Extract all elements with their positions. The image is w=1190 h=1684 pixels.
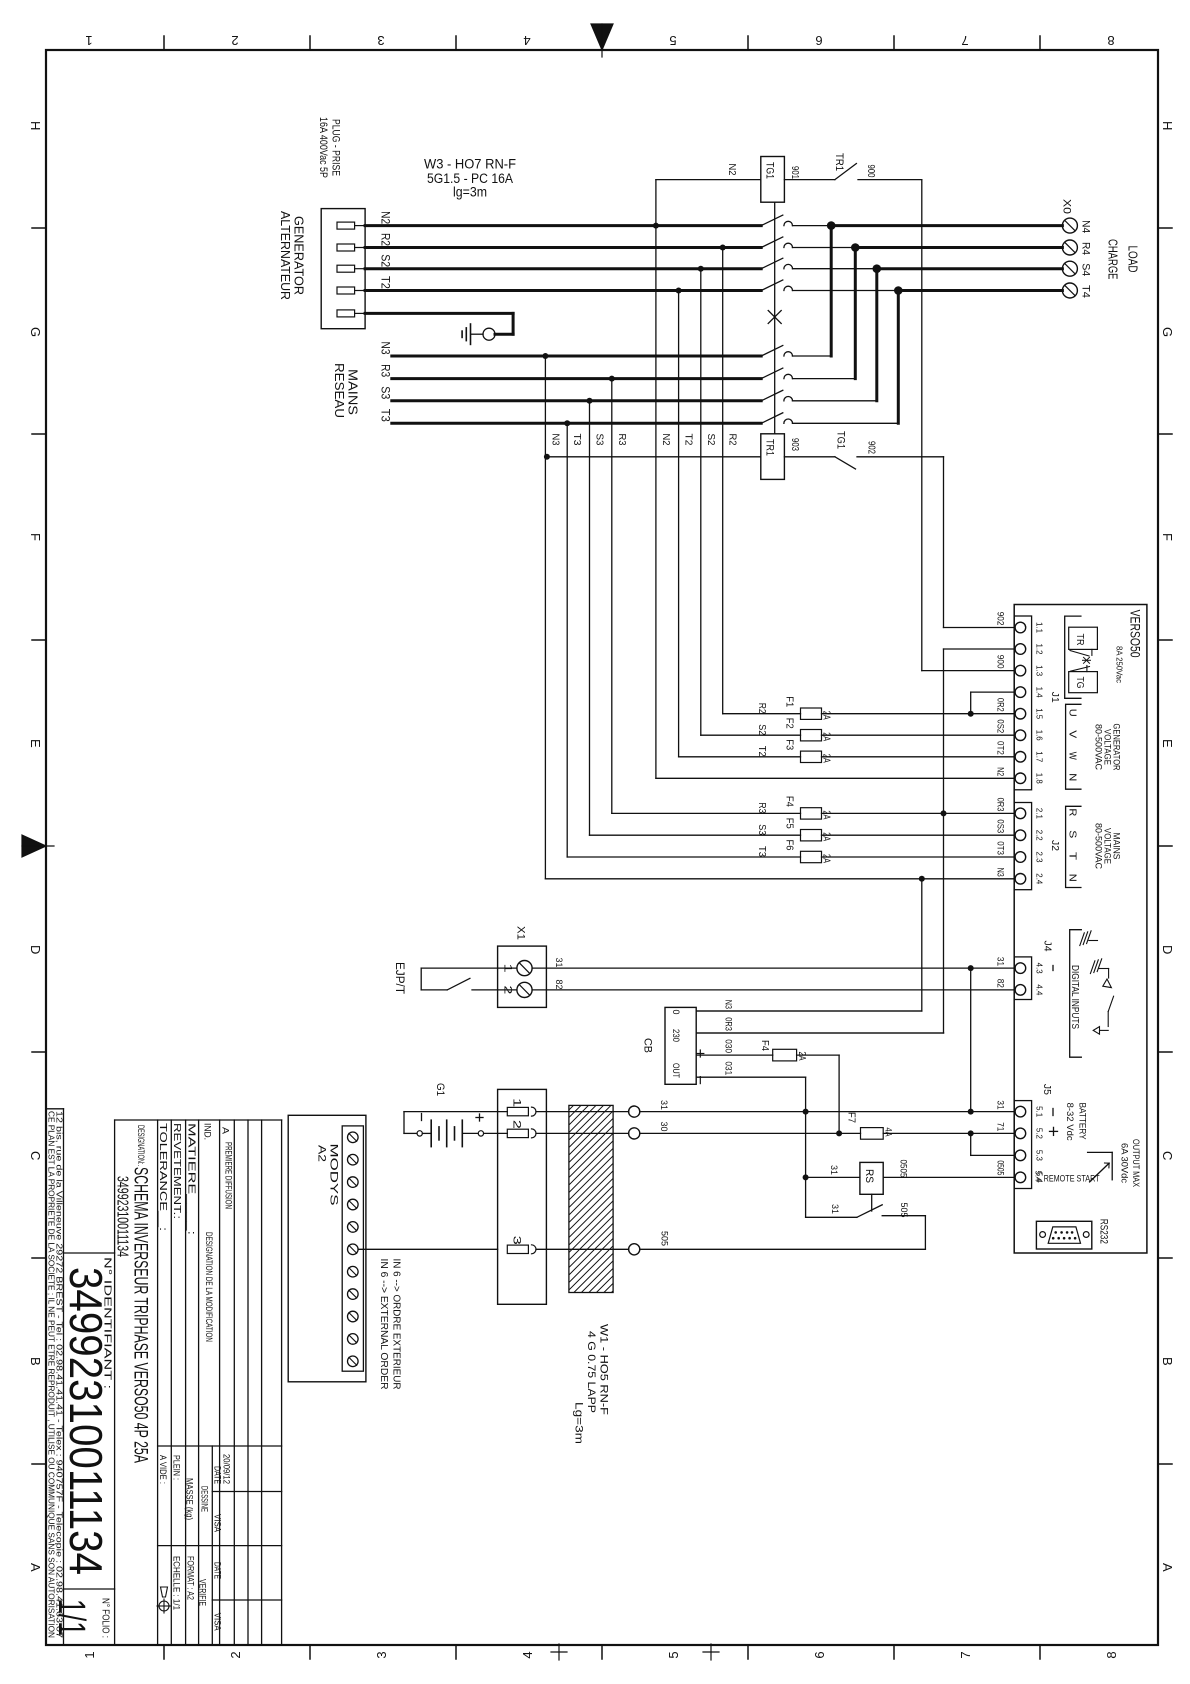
svg-text:TOLERANCE__:: TOLERANCE__: (157, 1123, 168, 1231)
svg-text:TG1: TG1 (835, 431, 847, 449)
svg-text:1: 1 (511, 1098, 523, 1107)
svg-text:REMOTE START: REMOTE START (1044, 1173, 1100, 1183)
svg-text:F: F (1160, 533, 1175, 541)
svg-text:N° FOLIO :: N° FOLIO : (100, 1598, 112, 1638)
svg-text:D: D (28, 945, 43, 954)
svg-text:A: A (220, 1127, 231, 1135)
svg-text:230: 230 (670, 1029, 681, 1042)
svg-text:2A: 2A (821, 810, 832, 819)
svg-text:1.2: 1.2 (1035, 644, 1045, 655)
svg-text:N2: N2 (379, 211, 393, 224)
svg-text:GENERATOR: GENERATOR (292, 216, 306, 295)
svg-text:VERIFIE: VERIFIE (197, 1579, 208, 1606)
svg-text:901: 901 (789, 166, 800, 179)
svg-text:34992310011134: 34992310011134 (114, 1176, 131, 1257)
svg-text:EJP/T: EJP/T (393, 962, 405, 994)
svg-text:MATIERE____:: MATIERE____: (185, 1123, 196, 1235)
svg-text:S2: S2 (379, 254, 393, 267)
svg-text:030: 030 (723, 1039, 734, 1053)
svg-text:80-500VAC: 80-500VAC (1094, 724, 1104, 770)
svg-text:W3 - HO7 RN-F: W3 - HO7 RN-F (424, 157, 516, 172)
svg-text:N3: N3 (379, 342, 393, 355)
svg-text:F3: F3 (784, 739, 795, 750)
svg-text:505: 505 (898, 1203, 909, 1218)
svg-text:1.5: 1.5 (1035, 708, 1045, 719)
svg-text:8-32 Vdc: 8-32 Vdc (1064, 1103, 1075, 1141)
svg-text:N3: N3 (549, 434, 560, 446)
svg-text:2A: 2A (821, 732, 832, 741)
svg-text:A: A (28, 1563, 43, 1572)
svg-text:R2: R2 (379, 233, 393, 246)
svg-text:2A: 2A (796, 1052, 807, 1061)
svg-text:4 G 0.75 LAPP: 4 G 0.75 LAPP (585, 1331, 597, 1413)
svg-text:82: 82 (995, 979, 1006, 988)
svg-text:6: 6 (812, 1651, 827, 1658)
svg-text:Lg=3m: Lg=3m (573, 1402, 585, 1444)
svg-text:J2: J2 (1049, 840, 1061, 851)
svg-text:S2: S2 (705, 434, 716, 446)
svg-text:2A: 2A (821, 754, 832, 763)
svg-text:S4: S4 (1080, 263, 1092, 276)
svg-text:TR1: TR1 (764, 439, 776, 456)
svg-text:F4: F4 (784, 796, 795, 807)
svg-text:5: 5 (669, 33, 676, 48)
svg-text:8: 8 (1107, 33, 1114, 48)
svg-text:ALTERNATEUR: ALTERNATEUR (278, 211, 292, 300)
svg-text:31: 31 (553, 958, 564, 968)
svg-text:1: 1 (82, 1651, 97, 1658)
svg-text:RS: RS (863, 1169, 875, 1183)
svg-text:31: 31 (828, 1165, 839, 1175)
svg-text:7: 7 (961, 33, 968, 48)
svg-text:4: 4 (520, 1651, 535, 1658)
svg-text:R4: R4 (1080, 242, 1092, 255)
svg-text:W1 - HO5 RN-F: W1 - HO5 RN-F (598, 1324, 610, 1415)
svg-text:X0: X0 (1061, 199, 1073, 214)
svg-text:N3: N3 (723, 1000, 734, 1009)
svg-text:0505: 0505 (898, 1160, 909, 1178)
svg-text:1.7: 1.7 (1035, 751, 1045, 762)
svg-text:3: 3 (511, 1236, 523, 1245)
svg-text:F5: F5 (784, 818, 795, 829)
svg-text:TG: TG (1074, 677, 1085, 689)
svg-text:4: 4 (523, 33, 530, 48)
svg-text:W: W (1067, 752, 1079, 760)
svg-text:0S3: 0S3 (995, 819, 1006, 833)
svg-text:DATE: DATE (212, 1466, 223, 1484)
svg-text:J5: J5 (1041, 1084, 1053, 1095)
svg-text:1/1: 1/1 (50, 1599, 92, 1636)
svg-text:900: 900 (865, 165, 876, 178)
svg-text:6A 30Vdc: 6A 30Vdc (1119, 1143, 1130, 1183)
svg-text:VERSO50: VERSO50 (1128, 610, 1143, 658)
svg-text:N2: N2 (995, 767, 1006, 776)
svg-text:X1: X1 (515, 926, 527, 940)
svg-text:G: G (28, 327, 43, 337)
svg-text:T2: T2 (683, 434, 694, 446)
svg-text:R2: R2 (727, 434, 738, 446)
svg-text:5.3: 5.3 (1035, 1150, 1045, 1161)
svg-text:2.4: 2.4 (1035, 873, 1045, 884)
svg-text:MASSE (kg): MASSE (kg) (184, 1478, 195, 1520)
svg-text:900: 900 (995, 655, 1006, 669)
svg-text:031: 031 (723, 1061, 734, 1075)
svg-text:CHARGE: CHARGE (1106, 239, 1121, 280)
svg-text:A VIDE :: A VIDE : (157, 1455, 168, 1484)
svg-text:2: 2 (231, 33, 238, 48)
svg-text:902: 902 (995, 612, 1006, 626)
svg-text:0505: 0505 (995, 1160, 1006, 1175)
svg-text:DATE: DATE (212, 1562, 223, 1579)
svg-text:16A 400Vac 5P: 16A 400Vac 5P (317, 117, 329, 178)
svg-text:H: H (28, 121, 43, 130)
svg-text:DESIGNATION DE LA MODIFICATION: DESIGNATION DE LA MODIFICATION (203, 1232, 214, 1342)
svg-text:F4: F4 (759, 1040, 770, 1051)
svg-text:2A: 2A (821, 854, 832, 863)
svg-text:S3: S3 (594, 434, 605, 446)
svg-text:F2: F2 (784, 718, 795, 729)
svg-text:5.2: 5.2 (1035, 1128, 1045, 1139)
svg-text:8A 250Vac: 8A 250Vac (1115, 646, 1125, 684)
svg-text:ECHELLE : 1/1: ECHELLE : 1/1 (171, 1556, 182, 1610)
svg-text:FORMAT : A2: FORMAT : A2 (185, 1556, 196, 1600)
svg-text:TR: TR (1074, 634, 1085, 646)
svg-text:31: 31 (829, 1204, 840, 1214)
svg-text:MODYS: MODYS (328, 1144, 340, 1206)
svg-text:CB: CB (642, 1038, 654, 1053)
svg-text:2: 2 (228, 1651, 243, 1658)
svg-text:5: 5 (666, 1651, 681, 1658)
svg-text:B: B (28, 1357, 43, 1366)
svg-text:PLUG - PRISE: PLUG - PRISE (330, 119, 342, 176)
svg-text:H: H (1160, 121, 1175, 130)
svg-text:J4: J4 (1042, 941, 1054, 952)
svg-text:VISA: VISA (212, 1514, 223, 1533)
svg-text:T3: T3 (379, 409, 393, 422)
svg-text:E: E (1160, 739, 1175, 748)
svg-text:VISA: VISA (212, 1613, 223, 1632)
svg-text:R2: R2 (756, 703, 767, 714)
svg-text:T2: T2 (379, 276, 393, 289)
svg-text:G: G (1160, 327, 1175, 337)
svg-text:BATTERY: BATTERY (1077, 1103, 1088, 1141)
svg-text:2.3: 2.3 (1035, 852, 1045, 863)
svg-text:T2: T2 (756, 746, 767, 757)
svg-text:1.3: 1.3 (1035, 665, 1045, 676)
svg-text:CE PLAN EST LA PROPRIETE DE LA: CE PLAN EST LA PROPRIETE DE LA SOCIETE ;… (47, 1111, 56, 1638)
svg-text:T: T (1067, 852, 1079, 861)
svg-text:TG1: TG1 (764, 162, 776, 179)
svg-text:R3: R3 (616, 434, 627, 446)
svg-text:LOAD: LOAD (1126, 246, 1141, 273)
svg-text:S2: S2 (756, 724, 767, 735)
svg-text:80-500VAC: 80-500VAC (1094, 823, 1104, 869)
svg-text:903: 903 (789, 438, 800, 451)
svg-text:F7: F7 (846, 1112, 857, 1123)
svg-text:T3: T3 (756, 846, 767, 857)
svg-text:T4: T4 (1080, 285, 1092, 298)
svg-text:4.3: 4.3 (1035, 963, 1045, 974)
svg-text:RESEAU: RESEAU (332, 363, 346, 418)
svg-text:0R3: 0R3 (723, 1017, 734, 1031)
svg-text:2: 2 (511, 1120, 523, 1129)
svg-text:N2: N2 (660, 434, 671, 446)
svg-text:31: 31 (658, 1100, 669, 1110)
svg-text:F6: F6 (784, 840, 795, 851)
svg-text:R: R (1067, 808, 1079, 816)
svg-text:REVETEMENT.:: REVETEMENT.: (171, 1123, 182, 1219)
svg-text:0R2: 0R2 (995, 698, 1006, 712)
svg-text:4.4: 4.4 (1035, 984, 1045, 995)
svg-text:SCHEMA INVERSEUR TRIPHASE VERS: SCHEMA INVERSEUR TRIPHASE VERSO50 4P 25A (130, 1167, 152, 1463)
svg-text:2.1: 2.1 (1035, 808, 1045, 819)
svg-text:0R3: 0R3 (995, 798, 1006, 812)
svg-text:3: 3 (377, 33, 384, 48)
svg-text:4A: 4A (883, 1128, 894, 1138)
svg-text:R3: R3 (756, 802, 767, 813)
svg-text:PLEIN :: PLEIN : (171, 1455, 182, 1480)
svg-text:N4: N4 (1080, 220, 1092, 233)
svg-text:34992310011134: 34992310011134 (60, 1267, 112, 1575)
svg-text:C: C (28, 1151, 43, 1160)
svg-text:A: A (1160, 1563, 1175, 1572)
svg-text:B: B (1160, 1357, 1175, 1366)
svg-text:A2: A2 (316, 1145, 328, 1162)
svg-text:1.1: 1.1 (1035, 622, 1045, 633)
svg-text:0: 0 (670, 1010, 681, 1015)
svg-text:RS232: RS232 (1097, 1219, 1109, 1244)
svg-text:S3: S3 (756, 824, 767, 835)
svg-text:lg=3m: lg=3m (453, 185, 487, 200)
svg-text:31: 31 (995, 1100, 1006, 1109)
svg-text:7: 7 (958, 1651, 973, 1658)
svg-text:TR1: TR1 (833, 153, 845, 171)
svg-text:OUT: OUT (670, 1063, 681, 1078)
svg-text:S: S (1067, 830, 1079, 838)
svg-text:8: 8 (1104, 1651, 1119, 1658)
svg-text:5.4: 5.4 (1033, 1171, 1043, 1182)
svg-text:U: U (1067, 709, 1079, 717)
svg-text:2A: 2A (821, 711, 832, 720)
svg-text:S3: S3 (379, 386, 393, 399)
svg-text:T3: T3 (571, 434, 582, 446)
svg-text:71: 71 (995, 1122, 1006, 1131)
svg-text:0T3: 0T3 (995, 841, 1006, 855)
svg-text:1: 1 (85, 33, 92, 48)
svg-text:PREMIERE DIFFUSION: PREMIERE DIFFUSION (223, 1142, 234, 1209)
svg-text:DESIGNATION:.: DESIGNATION:. (135, 1125, 146, 1166)
svg-text:MAINS: MAINS (346, 369, 360, 415)
svg-text:2A: 2A (821, 832, 832, 841)
svg-text:82: 82 (553, 980, 564, 990)
svg-text:J1: J1 (1049, 692, 1061, 703)
svg-text:31: 31 (995, 957, 1006, 966)
svg-text:DIGITAL INPUTS: DIGITAL INPUTS (1069, 965, 1081, 1029)
svg-text:1.4: 1.4 (1035, 687, 1045, 698)
svg-text:30: 30 (658, 1122, 669, 1132)
svg-text:N: N (1067, 874, 1079, 882)
svg-text:R3: R3 (379, 364, 393, 377)
svg-text:0S2: 0S2 (995, 719, 1006, 733)
svg-text:N3: N3 (995, 868, 1006, 877)
svg-text:E: E (28, 739, 43, 748)
svg-text:F: F (28, 533, 43, 541)
svg-text:1.6: 1.6 (1035, 730, 1045, 741)
svg-text:N: N (1067, 773, 1079, 781)
svg-text:N2: N2 (726, 164, 737, 176)
svg-text:C: C (1160, 1151, 1175, 1160)
svg-text:5.1: 5.1 (1035, 1106, 1045, 1117)
svg-text:D: D (1160, 945, 1175, 954)
svg-text:2.2: 2.2 (1035, 830, 1045, 841)
svg-text:3: 3 (374, 1651, 389, 1658)
svg-text:OUTPUT MAX: OUTPUT MAX (1130, 1139, 1141, 1188)
svg-text:IND.: IND. (202, 1123, 213, 1140)
svg-text:F1: F1 (784, 696, 795, 707)
svg-text:DESSINE: DESSINE (199, 1486, 210, 1512)
svg-text:505: 505 (659, 1231, 670, 1246)
svg-text:1.8: 1.8 (1035, 773, 1045, 784)
svg-text:IN 6 --> ORDRE EXTERIEUR: IN 6 --> ORDRE EXTERIEUR (390, 1259, 402, 1390)
svg-text:902: 902 (866, 441, 877, 454)
svg-text:0T2: 0T2 (995, 741, 1006, 755)
svg-text:6: 6 (815, 33, 822, 48)
svg-text:V: V (1067, 730, 1079, 738)
svg-text:G1: G1 (434, 1083, 446, 1096)
svg-text:IN 6 --> EXTERNAL ORDER: IN 6 --> EXTERNAL ORDER (378, 1259, 390, 1390)
